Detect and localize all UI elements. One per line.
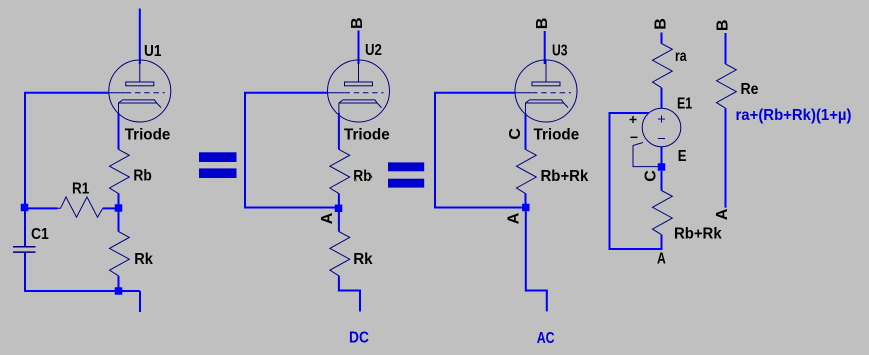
svg-text:Rb+Rk: Rb+Rk — [541, 168, 589, 185]
node A circuit2 — [335, 205, 343, 213]
svg-text:Triode: Triode — [534, 126, 580, 143]
svg-text:B: B — [653, 18, 670, 30]
wire E1 to node C — [661, 147, 663, 164]
wire C1 bottom — [24, 253, 26, 292]
svg-text:Triode: Triode — [125, 127, 171, 144]
wire grid U1 to left rail — [25, 93, 109, 247]
svg-text:A: A — [506, 212, 523, 224]
resistor Re — [717, 64, 737, 108]
svg-text:C1: C1 — [31, 226, 49, 243]
wire node A to Rk circuit2 — [338, 212, 340, 232]
triode U3 symbol — [515, 60, 577, 122]
wire cathode U3 to resistor — [525, 113, 527, 150]
resistor Rb+Rk circuit4 — [653, 191, 673, 235]
node A circuit3 — [522, 204, 530, 212]
equals sign 2 — [388, 162, 424, 187]
svg-text:DC: DC — [349, 330, 369, 347]
polarity minus outside E1 — [631, 136, 638, 138]
svg-text:E: E — [678, 148, 687, 165]
wire node to Rk — [118, 211, 120, 232]
wire R1 right lead — [103, 207, 116, 209]
wire ra to E1 — [661, 88, 663, 109]
wire Re to A — [725, 108, 727, 208]
svg-text:ra+(Rb+Rk)(1+µ): ra+(Rb+Rk)(1+µ) — [736, 107, 852, 124]
svg-text:U2: U2 — [365, 42, 382, 59]
triode U1 symbol — [109, 60, 171, 122]
wire node C to Rb+Rk circuit4 — [661, 171, 663, 191]
artifact dot 2 — [355, 179, 357, 181]
svg-text:AC: AC — [537, 330, 555, 347]
wire node A to bottom stub circuit3 — [526, 211, 547, 311]
capacitor C1 — [13, 247, 36, 252]
wire plate U1 — [139, 9, 141, 65]
svg-text:Rk: Rk — [134, 251, 153, 268]
svg-text:B: B — [714, 20, 731, 32]
wire resistor to node A circuit3 — [525, 194, 527, 205]
wire grid U3 to node A — [435, 93, 522, 208]
svg-text:C: C — [643, 170, 660, 182]
wire bottom rail circuit1 — [24, 290, 140, 292]
svg-text:Re: Re — [741, 81, 759, 98]
resistor Rk circuit1 — [110, 232, 130, 276]
resistor ra — [653, 44, 673, 88]
resistor R1 — [58, 197, 103, 217]
artifact dot 1 — [369, 175, 372, 178]
wire R1 left lead — [27, 207, 58, 209]
svg-text:ra: ra — [675, 48, 687, 65]
svg-text:A: A — [319, 212, 336, 224]
svg-text:A: A — [714, 208, 731, 220]
node C circuit4 — [658, 163, 666, 171]
wire Rk to bottom rail — [118, 276, 120, 291]
svg-text:B: B — [534, 18, 551, 30]
svg-text:Rb: Rb — [353, 168, 372, 185]
svg-text:Triode: Triode — [344, 127, 390, 144]
equals sign 1 — [199, 152, 237, 178]
svg-text:B: B — [349, 17, 366, 29]
svg-text:U1: U1 — [144, 43, 161, 60]
triode U2 symbol — [328, 60, 390, 122]
node junction left (C1 top / R1) — [21, 204, 29, 212]
svg-text:A: A — [657, 251, 666, 268]
svg-text:C: C — [507, 128, 524, 140]
wire cathode U1 to Rb — [118, 113, 120, 150]
wire Rk to bottom stub circuit2 — [339, 276, 360, 312]
svg-text:Rk: Rk — [353, 251, 372, 268]
node junction bottom rail — [115, 287, 123, 295]
resistor Rb circuit2 — [330, 149, 350, 193]
svg-text:E1: E1 — [677, 95, 692, 112]
wire B to plate U3 — [544, 31, 546, 64]
wire loop left rail circuit4 — [610, 113, 663, 249]
wire B to Re — [725, 33, 727, 64]
wire Rb to node A circuit2 — [338, 194, 340, 206]
wire Rb to node — [118, 194, 120, 206]
resistor Rb circuit1 — [110, 149, 130, 193]
wire Rb+Rk to bottom corner — [661, 235, 663, 250]
wire bottom stub circuit1 — [139, 291, 141, 312]
wire B to ra — [661, 33, 663, 44]
resistor Rb+Rk circuit3 — [517, 149, 537, 193]
svg-text:Rb+Rk: Rb+Rk — [674, 225, 722, 242]
resistor Rk circuit2 — [330, 232, 350, 276]
svg-text:R1: R1 — [72, 180, 89, 197]
source E1 — [642, 108, 681, 147]
svg-text:U3: U3 — [552, 42, 568, 59]
wire bracket E1 minus to node — [633, 143, 658, 167]
polarity plus outside E1 — [630, 116, 637, 123]
node junction Rb/Rk/R1 — [115, 204, 123, 212]
wire B to plate U2 — [358, 31, 360, 65]
wire cathode U2 to Rb — [338, 113, 340, 150]
wire grid U2 to node A — [245, 93, 335, 208]
svg-text:Rb: Rb — [133, 168, 152, 185]
